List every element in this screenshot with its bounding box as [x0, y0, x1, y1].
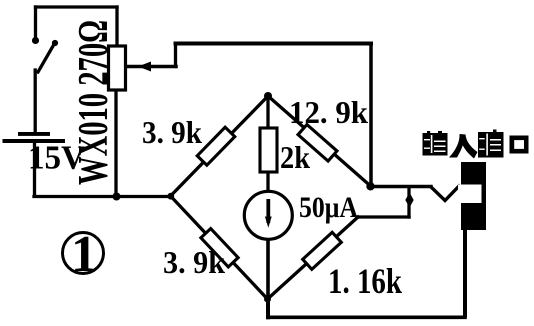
svg-text:3. 9k: 3. 9k	[163, 244, 225, 280]
svg-text:1: 1	[71, 226, 97, 283]
svg-text:WX010 270Ω: WX010 270Ω	[71, 20, 117, 185]
svg-text:12. 9k: 12. 9k	[289, 94, 368, 130]
svg-text:1. 16k: 1. 16k	[328, 261, 402, 301]
svg-text:2k: 2k	[280, 139, 310, 175]
svg-text:3. 9k: 3. 9k	[142, 114, 202, 150]
svg-text:50μA: 50μA	[299, 191, 358, 224]
